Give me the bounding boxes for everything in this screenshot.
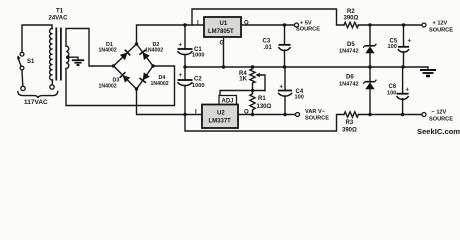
wire: switch bottom to 117VAC left terminal <box>21 70 24 86</box>
terminal +12V <box>422 23 426 27</box>
wire: center tap to ground <box>68 57 78 59</box>
svg-text:100: 100 <box>387 91 396 97</box>
svg-text:1N4742: 1N4742 <box>339 82 359 88</box>
svg-text:R3: R3 <box>346 120 354 126</box>
IC U1 <box>197 17 249 37</box>
svg-text:S1: S1 <box>27 59 35 65</box>
svg-text:100: 100 <box>388 44 397 50</box>
diode D2 <box>139 50 150 60</box>
wire: under-route from C2 bottom to R3 <box>185 115 344 132</box>
svg-text:.01: .01 <box>264 45 273 51</box>
svg-text:R1: R1 <box>258 96 266 102</box>
diode D4 <box>139 72 150 82</box>
svg-text:G: G <box>220 41 225 47</box>
svg-text:+: + <box>179 73 183 79</box>
transformer primary bottom lead to 117VAC right terminal <box>51 80 53 85</box>
node C5 top <box>402 23 405 26</box>
svg-text:+: + <box>179 43 183 49</box>
svg-text:1K: 1K <box>239 77 247 83</box>
svg-text:C6: C6 <box>389 84 397 90</box>
capacitor C2 <box>178 67 205 115</box>
node C6 bottom <box>401 113 404 116</box>
svg-text:1N4002: 1N4002 <box>99 48 117 54</box>
bottom rail: bridge bottom to U2 input <box>137 89 203 115</box>
node C3/C4 junction <box>283 65 286 68</box>
resistor R1 <box>250 91 255 115</box>
svg-text:1000: 1000 <box>192 53 204 59</box>
svg-text:C2: C2 <box>194 77 202 83</box>
svg-text:100: 100 <box>295 95 304 101</box>
ground (transformer center tap) <box>72 60 84 65</box>
potentiometer R4 <box>239 67 265 91</box>
svg-text:SeekIC.com: SeekIC.com <box>417 127 460 136</box>
node R4 top <box>251 65 254 68</box>
svg-text:U1: U1 <box>220 21 228 27</box>
svg-text:390Ω: 390Ω <box>344 16 359 22</box>
node D5/D6 junction <box>368 65 371 68</box>
svg-text:C3: C3 <box>263 39 271 45</box>
capacitor C3 <box>263 25 291 67</box>
terminal VAR V- <box>296 113 300 117</box>
terminal -12V <box>422 113 426 117</box>
svg-text:+: + <box>408 39 412 45</box>
svg-text:+ 12V: + 12V <box>433 21 448 27</box>
svg-text:1N4002: 1N4002 <box>145 47 163 53</box>
wire: U1 ground pin <box>223 37 225 67</box>
node bridge left <box>112 64 115 67</box>
node bridge bottom <box>135 87 138 90</box>
IC U2 <box>195 105 249 129</box>
node C1 top <box>183 23 186 26</box>
node bridge top <box>135 42 138 45</box>
wire: over-the-top branch to R2 <box>192 9 344 25</box>
wire: secondary bottom to bridge right vertex <box>66 66 175 106</box>
ground rail (mid) <box>185 66 428 68</box>
svg-text:LM7805T: LM7805T <box>208 29 234 35</box>
capacitor C6 <box>387 67 410 115</box>
transformer T1 primary winding <box>50 28 53 80</box>
node ADJ/R1/R4 junction <box>251 89 254 92</box>
svg-text:130Ω: 130Ω <box>257 104 272 110</box>
svg-text:O: O <box>244 21 249 27</box>
svg-text:SOURCE: SOURCE <box>296 27 320 33</box>
wire: U2 output rail <box>238 114 296 116</box>
switch S1 <box>17 52 35 70</box>
svg-text:24VAC: 24VAC <box>49 16 69 22</box>
brace 117VAC <box>18 92 58 99</box>
svg-text:D4: D4 <box>159 75 166 81</box>
node bridge right <box>151 64 154 67</box>
node C4 bottom <box>283 113 286 116</box>
wire: switch top to transformer primary top <box>22 25 52 52</box>
transformer T1 secondary winding <box>66 46 69 68</box>
node C2 bottom <box>183 113 186 116</box>
wire: bridge top to +rail <box>137 25 297 44</box>
svg-text:D5: D5 <box>347 42 355 48</box>
capacitor C4 <box>278 67 304 115</box>
resistor R2 <box>344 22 358 27</box>
svg-text:390Ω: 390Ω <box>342 128 357 134</box>
svg-text:1N4002: 1N4002 <box>151 81 169 87</box>
svg-text:+: + <box>406 88 410 94</box>
svg-text:+: + <box>280 85 284 91</box>
node D5 top <box>368 23 371 26</box>
svg-text:SOURCE: SOURCE <box>429 28 453 34</box>
bridge frame wires <box>114 44 154 89</box>
transformer core <box>55 28 57 81</box>
resistor R3 <box>344 112 358 117</box>
svg-text:1N4742: 1N4742 <box>339 49 359 55</box>
svg-text:1N4002: 1N4002 <box>99 83 117 89</box>
wire: secondary top to bridge left vertex <box>66 29 114 67</box>
ground (right) <box>420 67 436 76</box>
svg-text:SOURCE: SOURCE <box>305 116 329 122</box>
node: secondary center tap <box>66 55 70 59</box>
zener D5 <box>339 25 376 67</box>
capacitor C1 <box>178 25 205 67</box>
node R1 bottom <box>251 113 254 116</box>
svg-text:117VAC: 117VAC <box>24 99 48 106</box>
wire: ADJ line <box>220 91 265 96</box>
svg-text:D6: D6 <box>346 75 354 81</box>
node U1 G <box>222 65 225 68</box>
svg-text:R2: R2 <box>347 9 355 15</box>
svg-text:LM337T: LM337T <box>209 119 232 125</box>
svg-text:U2: U2 <box>217 111 225 117</box>
svg-text:SOURCE: SOURCE <box>429 117 453 123</box>
svg-text:T1: T1 <box>56 9 64 15</box>
ADJ box <box>219 96 237 105</box>
svg-text:1000: 1000 <box>192 83 204 89</box>
svg-text:− 12V: − 12V <box>432 110 447 116</box>
node C1/C2 junction <box>183 65 186 68</box>
node D6 bottom <box>368 113 371 116</box>
capacitor C5 <box>388 25 412 67</box>
zener D6 <box>339 67 376 115</box>
wire: R2 to +12V terminal <box>358 24 422 26</box>
node C3 top <box>283 23 286 26</box>
117VAC terminals <box>21 86 25 90</box>
terminal +5V <box>295 23 299 27</box>
wire: R3 to -12V terminal <box>358 114 422 116</box>
node C5/C6 junction <box>401 65 404 68</box>
diode D1 <box>120 50 131 61</box>
svg-text:VAR V−: VAR V− <box>305 109 326 115</box>
diode D3 <box>120 72 131 83</box>
